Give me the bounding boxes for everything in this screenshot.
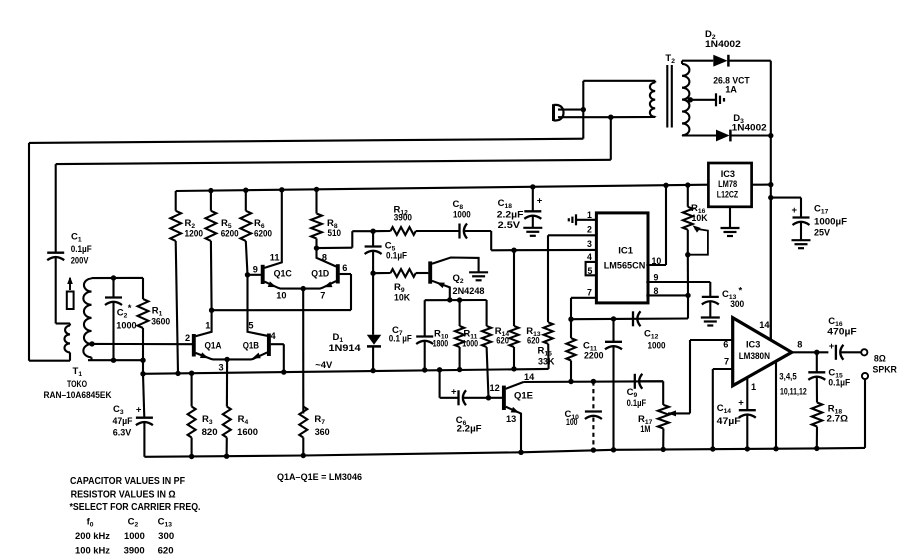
svg-text:3: 3 [587,239,592,249]
transformer T2 core [666,65,668,128]
junction: R8 top [314,187,319,192]
capacitor C10 (100pF, optional dashed) [592,381,594,409]
svg-text:Q1A–Q1E = LM3046: Q1A–Q1E = LM3046 [277,472,362,483]
junction: R15 bottom [568,379,573,384]
junction: R3 top [189,371,194,376]
capacitor C18 (2.2uF 2.5V) [532,187,534,211]
junction: Q1C collector pin 11 top [279,187,284,192]
svg-text:Q1C: Q1C [274,269,293,279]
ground (C17) [792,239,811,241]
junction: R18 bottom [814,446,819,451]
svg-text:5: 5 [248,321,253,331]
IC1 pin 1 stub to ground [576,219,596,221]
transistor Q1A (base bar) [192,334,196,357]
resistor R13 (620) [544,322,553,344]
resistor R14 (620) [513,250,515,326]
svg-text:*: * [739,286,743,297]
node: T1 center tap [89,341,94,346]
svg-text:6200: 6200 [254,229,272,239]
resistor R8 (510) [315,189,317,213]
svg-text:10: 10 [652,256,662,266]
svg-text:1000: 1000 [648,341,666,351]
resistor R10 (1800) [459,300,461,326]
svg-text:SPKR: SPKR [873,365,898,375]
resistor R18 (2.7ohm zobel) [812,403,822,427]
transistor Q2 (base bar) [428,261,432,283]
transistor Q1C (base bar) [261,265,265,284]
svg-text:9: 9 [253,265,258,275]
wire: IC1 pin 10 to V+ [646,264,666,266]
resistor R2 (1200) [175,191,177,211]
svg-text:+: + [738,398,744,409]
junction: Q1E emitter ground [518,450,523,455]
transistor Q1E (base bar) [502,386,506,410]
svg-text:1: 1 [587,210,592,220]
capacitor C5 (0.1uF) [372,231,374,246]
capacitor C12 (1000pF) [632,311,634,326]
svg-text:100 kHz: 100 kHz [75,545,110,554]
svg-text:510: 510 [328,228,342,238]
svg-text:10,11,12: 10,11,12 [780,387,807,397]
transistor Q1A emitter pin 3 [196,353,228,360]
junction: C17 tap [768,195,773,200]
svg-text:2.7Ω: 2.7Ω [827,414,849,424]
wire: emitters down to R7 [302,289,304,414]
capacitor C9 (0.1uF) [634,374,636,389]
transistor Q2 emitter [432,281,450,300]
junction: R6 top [243,188,248,193]
svg-text:2.5V: 2.5V [498,220,522,230]
svg-text:8Ω: 8Ω [874,354,886,364]
svg-text:0.1 µF: 0.1 µF [389,334,412,344]
transformer T1 secondary winding [90,277,92,279]
wire: plug top to T2 primary top [582,81,584,110]
terminal: speaker - [862,373,868,379]
svg-text:620: 620 [496,335,509,345]
transistor Q1D emitter pin 7 [303,281,336,289]
svg-text:7: 7 [724,357,729,367]
svg-text:1800: 1800 [433,339,449,349]
svg-text:360: 360 [315,427,330,437]
junction: Q1B base on bias rail [281,369,286,374]
svg-text:~4V: ~4V [315,360,333,371]
svg-text:4: 4 [587,252,592,262]
wire: base node to Q1E [489,397,503,399]
svg-text:2: 2 [587,225,592,235]
junction: R14 bottom [511,366,516,371]
svg-text:Q1E: Q1E [514,391,533,401]
junction: R10 bottom [457,367,462,372]
transformer T1 tuning slug and arrow [67,277,73,285]
svg-text:L12CZ: L12CZ [717,190,739,200]
svg-text:6: 6 [342,263,347,273]
junction: C14 bottom [745,446,750,451]
capacitor C16 (470uF output) [835,345,837,360]
capacitor C17 (1000uF 25V) [771,197,801,199]
svg-text:1000: 1000 [124,531,145,541]
junction: R5 top [208,188,213,193]
junction: R4 bottom [224,454,229,459]
svg-text:6200: 6200 [221,229,239,239]
junction: C2 bottom [111,358,116,363]
transistor Q1D (base bar) [336,264,340,283]
resistor R12 (3900) [373,230,390,232]
svg-text:Q1A: Q1A [205,341,222,351]
wire: C12 right to IC1 pin 8 [687,295,689,318]
svg-text:CAPACITOR VALUES IN PF: CAPACITOR VALUES IN PF [70,476,185,487]
ground (C13) [701,316,720,318]
svg-text:10: 10 [276,291,286,301]
svg-text:6.3V: 6.3V [113,428,132,438]
junction: C7 bottom [422,367,427,372]
junction: Q1A/Q1B emitters [224,357,229,362]
wire: IC1 pin 3 input line [491,249,596,252]
svg-text:LM380N: LM380N [739,351,771,361]
resistor R17 (1M pot) [658,405,669,429]
capacitor C15 (0.1uF zobel) [816,352,818,372]
transistor Q1C base pin 9 [248,274,262,276]
junction: C10 top [591,379,596,384]
wire: LM380 pin 6 input [690,339,733,341]
junction: pin7 / C12 / R15 node [568,317,573,322]
svg-text:2: 2 [185,333,190,343]
svg-text:IC3: IC3 [721,169,735,179]
svg-text:3,4,5: 3,4,5 [779,372,796,382]
junction: LM380 pins 3,4,5,10,11,12 ground [773,446,778,451]
junction: IC3 regulator output [768,182,773,187]
resistor R11 (1000) [486,300,488,326]
svg-text:3600: 3600 [151,317,170,327]
svg-text:3900: 3900 [394,213,412,223]
diode D3 (1N4002) [716,130,730,142]
wire: T1 secondary bottom line [88,359,143,361]
svg-text:25V: 25V [814,228,831,238]
svg-text:0.1µF: 0.1µF [627,398,647,408]
junction: C2 top [111,275,116,280]
svg-text:TOKO: TOKO [67,379,87,389]
junction: Q1C base / R6 / Q1B collector [245,272,250,277]
resistor R4 (1600) [223,407,231,438]
junction: R16 top [685,182,690,187]
wire: AC line outer loop (plug top prong to T1 primary bottom) [558,109,583,111]
wire: secondary bottom to D3 [682,134,716,136]
transformer T2 secondary winding [682,64,689,135]
junction: Q1E base node [486,395,491,400]
junction: R2 bottom [175,371,180,376]
svg-text:10K: 10K [692,213,708,223]
svg-text:1200: 1200 [185,229,204,239]
resistor R9 (10K) [373,272,390,274]
wire: IC1 pin 4 to pin 5 jumper [586,262,597,275]
IC U3 LM78L12CZ regulator box [708,163,751,207]
svg-text:+: + [537,196,543,207]
wire: IC3 output stub [752,184,771,186]
junction: LM380 pin 7 ground [710,446,715,451]
wire: ground rail (bottom) [144,448,865,457]
svg-text:620: 620 [158,545,174,554]
wire: Q2 emitter bus (C7/R10/R11 top) [425,299,487,301]
svg-text:RESISTOR VALUES IN Ω: RESISTOR VALUES IN Ω [71,490,176,501]
wire: secondary top to D2 [682,60,713,62]
svg-text:47µF: 47µF [717,416,741,426]
capacitor C3 (47uF 6.3V) [143,374,144,418]
transformer T2 primary winding [650,83,655,117]
svg-text:12: 12 [490,383,500,393]
wire: D3 cathode to output node [730,134,770,136]
op-amp IC3 LM380N (triangle) [733,318,792,386]
wire: ~4V bias rail [143,369,549,374]
svg-text:IC3: IC3 [746,340,760,350]
transistor Q2 collector to ground [432,258,479,272]
junction: R7 bottom [301,453,306,458]
svg-text:8: 8 [654,286,659,296]
junction: C11 top [611,316,616,321]
IC U1 LM565CN box [596,213,648,303]
svg-text:8: 8 [322,253,327,263]
junction: D1 bottom [370,368,375,373]
junction: R17 bottom [661,447,666,452]
junction: R16 bottom tie [685,252,690,257]
svg-text:14: 14 [524,372,535,382]
svg-text:*: * [128,303,132,314]
junction: Q1A collector / R5 / Q1D base node [209,308,214,313]
svg-text:47µF: 47µF [113,416,133,426]
svg-text:2200: 2200 [584,351,604,361]
svg-text:470µF: 470µF [827,327,857,337]
svg-text:+: + [792,205,798,216]
wire: IC1 pin 9 to C13 [646,281,710,283]
junction: R12 left / C5 top [370,229,375,234]
junction: C10 bottom [591,447,596,452]
diode D2 (1N4002) [713,55,727,67]
svg-text:9: 9 [654,273,659,283]
transistor Q1E collector pin 14 [506,382,524,389]
svg-text:+: + [451,387,457,398]
wire: AC line inner loop (plug bottom prong to C1 / T1 primary top) [558,116,611,118]
capacitor C7 (0.1uF) [424,300,426,336]
resistor R1 (3600) [142,278,144,299]
wire: speaker return to ground [864,379,866,448]
wire: D2 cathode to rectifier output [728,60,770,62]
wire: center tap to chassis ground [688,99,717,101]
junction: plug bottom prong node [608,115,613,120]
svg-text:2.2µF: 2.2µF [457,424,482,434]
junction: R1 bottom / secondary return [140,358,145,363]
svg-text:820: 820 [202,427,218,437]
svg-text:Q1D: Q1D [311,269,329,279]
svg-text:2.2µF: 2.2µF [497,210,524,220]
svg-text:1N4002: 1N4002 [732,123,767,133]
wire: R8 bottom to R12/C5 node [317,247,353,250]
transistor Q1C emitter pin 10 [264,282,303,289]
junction: C5 / R9 / D1 node [370,271,375,276]
svg-text:6: 6 [723,340,728,350]
svg-text:0.1µF: 0.1µF [386,251,407,261]
transistor Q1B (base bar) [267,334,271,357]
junction: C11 bottom [611,447,616,452]
wire: rectified supply down to IC3 and LM380 pin 14 [770,136,772,341]
resistor R15 (33K) [570,319,572,338]
svg-text:7: 7 [320,291,325,301]
svg-text:Q1B: Q1B [243,341,260,351]
wire: LM380 ground pins [775,362,777,449]
svg-text:1000: 1000 [453,210,471,220]
wiper of R16 [691,223,701,233]
svg-text:1000: 1000 [462,339,478,349]
svg-text:300: 300 [730,299,744,309]
junction: output node [814,350,819,355]
svg-text:1N4002: 1N4002 [705,39,741,49]
wire: node to Q1D base run [212,309,351,311]
svg-text:200V: 200V [71,256,89,266]
svg-text:620: 620 [527,335,540,345]
wire: secondary return down to bias rail [142,360,144,374]
junction: C18 top [530,184,535,189]
wire: IC1 pin 8 stub [646,294,688,296]
svg-text:1: 1 [751,382,756,392]
capacitor C1 (0.1uF 200V line coupling) [47,252,64,254]
wire: T1 secondary top to C2 and R1 [92,277,144,279]
transistor Q1E emitter pin 13 [506,407,521,453]
svg-text:RAN–10A6845EK: RAN–10A6845EK [44,390,112,400]
svg-text:1A: 1A [725,85,737,95]
junction: pin 8 / R16 wiper node [685,293,690,298]
svg-text:10K: 10K [394,293,410,303]
svg-text:7: 7 [587,288,592,298]
svg-text:300: 300 [158,531,174,541]
capacitor C11 (2200pF) [612,319,614,342]
wire: Q1E collector output line [524,380,664,383]
svg-text:8: 8 [797,340,802,350]
resistor R7 (360) [299,407,307,438]
transistor Q1D base pin 6 [340,273,351,275]
wire: LM380 output pin 8 [792,351,829,353]
wire: IC1 pin 2 line down to R13 [548,234,596,236]
ground (IC3 regulator) [721,227,740,229]
svg-text:33K: 33K [538,357,555,367]
wire: emitters to R4 [226,359,228,406]
svg-text:13: 13 [506,414,516,424]
ground (C18) [523,227,542,229]
wire: IC1 pin 7 demod output [571,297,596,299]
svg-text:14: 14 [759,320,770,330]
wire: LM380 pin 14 supply [770,198,772,341]
junction: R10 top [457,297,462,302]
diode D1 (1N914) [372,273,374,335]
svg-text:IC1: IC1 [618,246,634,257]
wire: IC3 ground lead [729,207,731,228]
junction: R14 tap on pin 3 line [511,248,516,253]
svg-text:*SELECT FOR CARRIER FREQ.: *SELECT FOR CARRIER FREQ. [70,502,201,513]
transistor Q1B collector pin 5 [248,275,268,336]
svg-text:LM78: LM78 [718,179,737,189]
junction: bias rail left end / C3 [140,371,145,376]
junction: C6 tap [437,367,442,372]
wire: R16 to IC1 pin 8 [687,255,689,296]
transformer T1 primary winding [69,324,71,326]
transistor Q1C collector pin 11 [264,190,281,268]
svg-text:2N4248: 2N4248 [453,286,485,296]
wiper of R17 [668,410,676,416]
svg-text:11: 11 [270,253,280,263]
resistor R16 (10K pot) [687,185,689,207]
junction: rectifier output [768,133,773,138]
svg-text:1N914: 1N914 [329,343,362,353]
wire: LM380 pin 7 to ground [713,368,733,370]
node: T2 center tap [688,97,693,102]
terminal: speaker + [861,349,867,355]
capacitor C8 (1000pF coupling) [458,224,460,239]
resistor R5 (6200) [210,191,212,211]
svg-text:1600: 1600 [237,427,258,437]
svg-text:1000: 1000 [116,321,136,331]
svg-text:1M: 1M [640,424,650,434]
svg-text:+: + [136,405,142,416]
capacitor C2 (1000pF tank) [112,278,114,298]
ground (Q2 collector) [469,271,488,273]
transistor Q1D collector pin 8 [317,248,337,266]
transistor Q1B emitter [227,352,267,359]
svg-text:3: 3 [219,363,224,373]
junction: R8 bottom / Q1D collector pin 8 [314,245,319,250]
junction: R3 bottom [189,454,194,459]
svg-text:4: 4 [271,331,277,341]
capacitor C13 (300pF) [709,282,711,297]
svg-text:0.1µF: 0.1µF [71,244,92,254]
wire: plug bottom to T2 primary bottom [611,116,655,118]
junction: Q2 emitter node [447,297,452,302]
junction: plug top prong node [581,107,586,112]
transistor Q1B base pin 4 [271,343,284,345]
wire: V+ supply rail (R2 to IC3 regulator input) [176,185,709,191]
ground (IC1 pin 1, rotated) [575,214,577,225]
svg-text:+: + [829,341,835,352]
wire: loop filter line to C12 [571,317,688,320]
resistor R3 (820) [191,373,193,406]
junction: IC1 pin 10 supply tap [663,183,668,188]
AC plug P1 [552,104,555,121]
svg-text:1000µF: 1000µF [814,217,847,227]
transistor Q1A collector pin 1 [196,310,212,336]
capacitor C6 (2.2uF coupling) [439,370,441,398]
capacitor C14 (47uF bypass) [746,377,748,410]
svg-text:1: 1 [205,321,210,331]
svg-text:0.1µF: 0.1µF [828,378,850,388]
wire: T1 center tap to Q1A base (pin 2) [92,343,192,345]
svg-text:100: 100 [566,417,578,427]
svg-text:LM565CN: LM565CN [604,261,646,272]
ground (T2 center tap, rotated) [715,93,717,106]
svg-text:3900: 3900 [124,545,145,554]
junction: Q1C/Q1D emitters [301,286,306,291]
svg-text:200 kHz: 200 kHz [75,531,110,541]
resistor R6 (6200) [245,190,247,211]
